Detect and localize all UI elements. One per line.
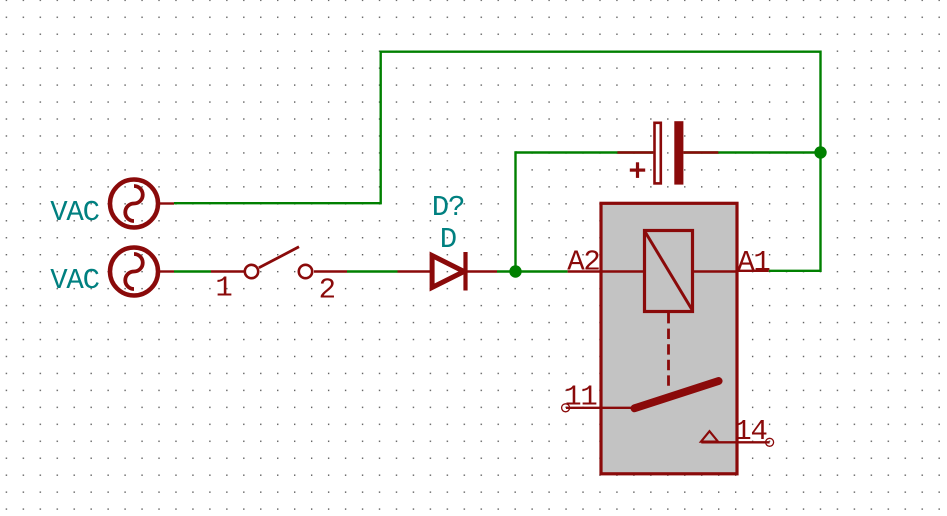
pin 11 end circle	[562, 404, 570, 412]
AC source G1 pin	[158, 202, 174, 204]
junction at top right node	[814, 146, 826, 158]
AC source G2 sine curve	[125, 254, 142, 289]
capacitor C1 negative plate	[674, 121, 683, 184]
svg-text:VAC: VAC	[50, 196, 99, 229]
wire diode to pin A2	[497, 270, 568, 272]
wire to pin A1	[769, 270, 821, 272]
diode D1 anode pin	[398, 270, 433, 272]
relay K1 contact lever	[635, 381, 719, 408]
relay K1 actuator dashed link	[667, 313, 670, 386]
relay K1 coil left lead	[601, 270, 645, 272]
junction at diode output node	[509, 265, 521, 277]
capacitor C1 right pin	[683, 151, 718, 153]
wire G2 output to switch	[174, 270, 211, 272]
svg-text:A1: A1	[737, 246, 769, 279]
pin 14 end circle	[766, 438, 774, 446]
wire right drop	[819, 52, 821, 271]
wire riser left	[380, 52, 382, 204]
svg-text:VAC: VAC	[50, 264, 99, 297]
wire riser junction to capacitor	[514, 153, 516, 272]
relay K1 body	[601, 203, 737, 474]
relay K1 coil box	[645, 231, 693, 312]
contact throw marker triangle	[701, 431, 718, 441]
AC source G1 sine curve	[125, 186, 142, 221]
diode D1 cathode bar	[463, 252, 467, 291]
svg-text:11: 11	[564, 380, 596, 413]
AC source G1 circle	[110, 180, 158, 228]
switch S1 pin 2 lead	[314, 270, 347, 272]
svg-text:14: 14	[734, 415, 766, 448]
wire capacitor right pin to junction	[683, 151, 820, 153]
capacitor C1 plus sign	[630, 162, 645, 178]
pin 14 lead	[701, 441, 769, 443]
wire G1 output to riser	[174, 202, 381, 204]
pin A1 lead	[737, 270, 769, 272]
switch S1 terminal circle 2	[299, 265, 312, 278]
capacitor C1 left pin	[617, 151, 653, 153]
wire top run	[381, 51, 821, 53]
AC source G2 circle	[110, 248, 158, 296]
switch S1 pin 1 lead	[211, 270, 244, 272]
wire to capacitor left pin	[516, 151, 654, 153]
wire switch to diode	[347, 270, 398, 272]
diode D1 triangle	[432, 256, 464, 288]
pin 11 lead	[566, 407, 633, 409]
AC source G2 pin	[158, 270, 174, 272]
switch S1 terminal circle 1	[245, 265, 258, 278]
switch S1 lever	[259, 247, 299, 268]
relay K1 coil right lead	[693, 270, 738, 272]
svg-text:2: 2	[319, 273, 335, 306]
diode D1 cathode pin	[467, 270, 497, 272]
svg-text:1: 1	[215, 272, 231, 305]
relay K1 coil diagonal	[646, 233, 693, 311]
svg-text:D: D	[440, 223, 456, 256]
svg-text:D?: D?	[432, 191, 464, 224]
svg-text:A2: A2	[567, 245, 599, 278]
capacitor C1 positive plate	[655, 123, 661, 184]
pin A2 lead	[568, 270, 601, 272]
